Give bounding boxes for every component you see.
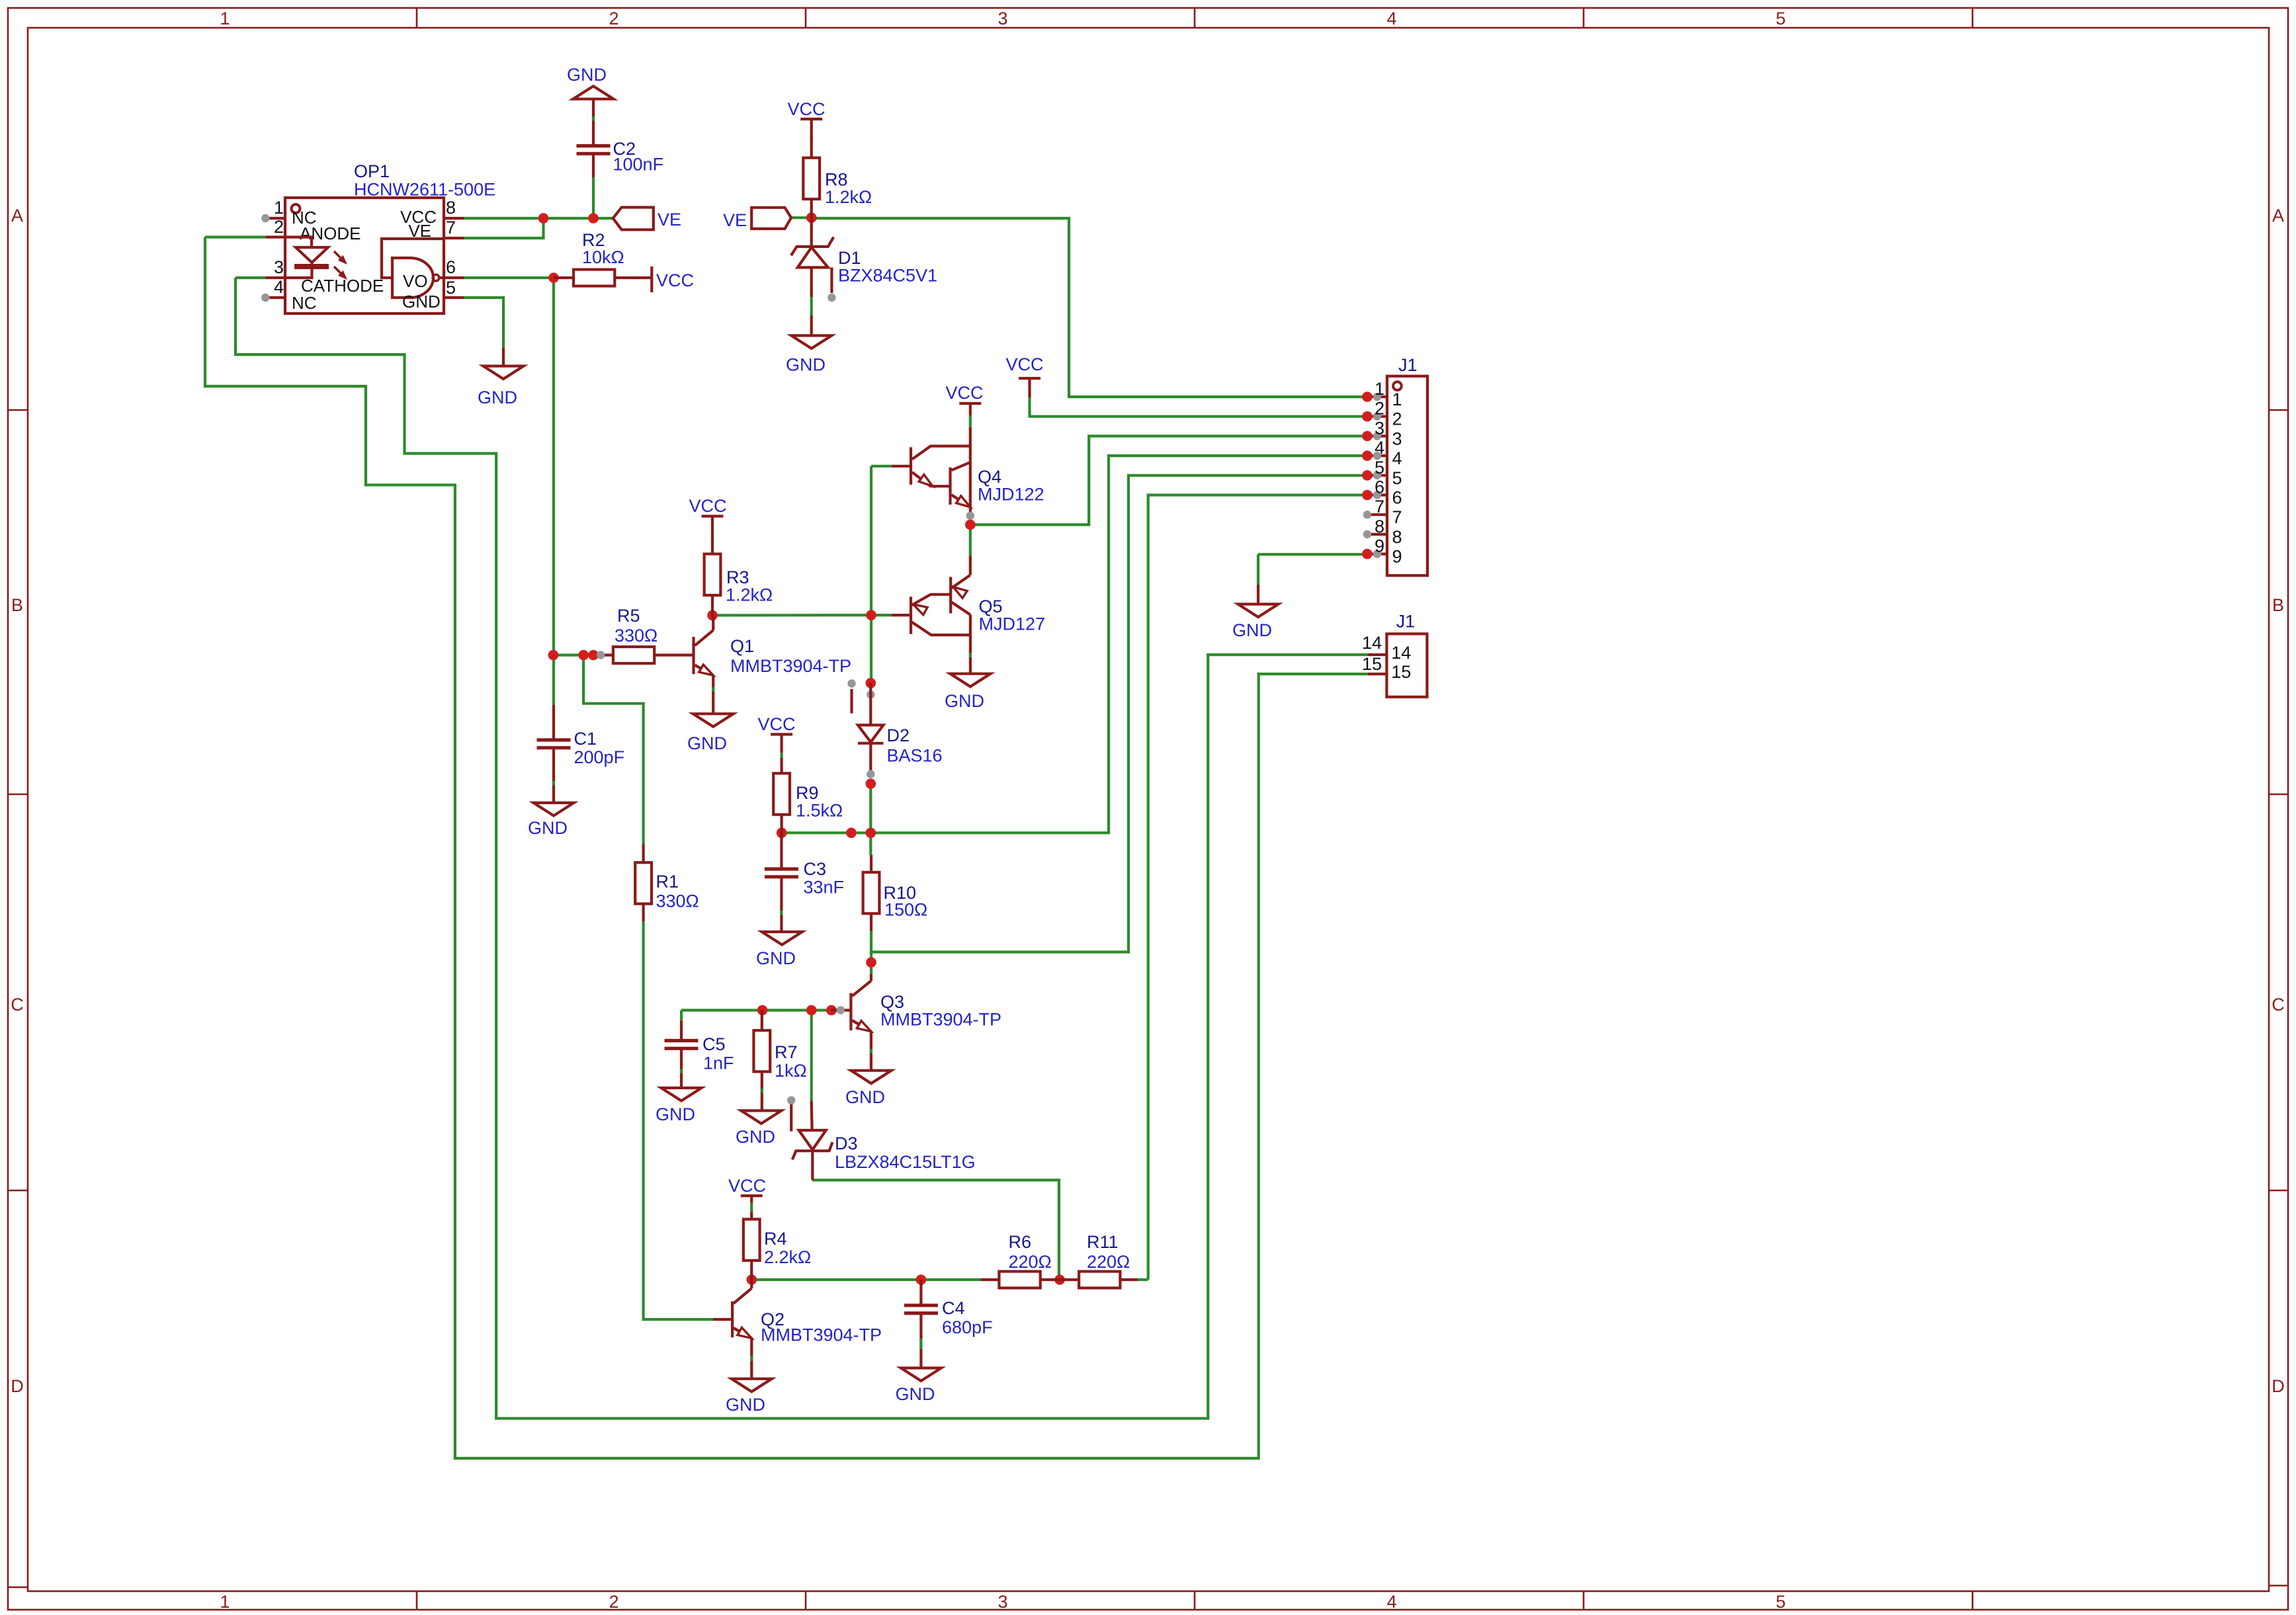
capacitor C2 100nF xyxy=(577,99,664,177)
wire Q3 base node down to D3 xyxy=(810,1011,813,1101)
svg-text:1.2kΩ: 1.2kΩ xyxy=(825,187,872,207)
ground GND under Q3 xyxy=(845,1071,892,1107)
OP1 LED light arrows xyxy=(334,251,347,279)
wire OP1 pin6 VO net xyxy=(464,276,554,279)
wire VE net to J1 pin1 xyxy=(812,218,1367,397)
svg-text:LBZX84C15LT1G: LBZX84C15LT1G xyxy=(835,1152,976,1172)
wire VCC stub Q4 xyxy=(969,416,972,427)
svg-text:2: 2 xyxy=(1375,399,1384,419)
svg-text:1.5kΩ: 1.5kΩ xyxy=(796,801,843,821)
J1 pin 15 xyxy=(1362,654,1411,682)
svg-text:10kΩ: 10kΩ xyxy=(582,247,624,267)
svg-text:BZX84C5V1: BZX84C5V1 xyxy=(838,266,937,286)
svg-text:R7: R7 xyxy=(775,1042,798,1062)
J1 pin 5 xyxy=(1362,458,1402,488)
resistor R10 150 xyxy=(863,855,928,931)
svg-text:R6: R6 xyxy=(1009,1232,1032,1252)
junction OP1 pin7 pin8 xyxy=(538,213,549,224)
svg-text:15: 15 xyxy=(1362,654,1382,674)
OP1 pin 6 VO xyxy=(444,257,464,278)
wire OP1 pin7 up to VE net xyxy=(464,218,544,238)
resistor R4 2.2k xyxy=(744,1212,811,1280)
svg-text:14: 14 xyxy=(1391,643,1411,663)
svg-text:GND: GND xyxy=(786,355,826,375)
OP1 pin 8 VCC xyxy=(400,198,464,227)
svg-text:VO: VO xyxy=(403,271,428,291)
capacitor C1 200pF xyxy=(537,705,625,803)
svg-text:C: C xyxy=(11,995,24,1015)
resistor R8 1.2k xyxy=(803,119,872,218)
transistor Q1 MMBT3904-TP xyxy=(694,615,852,714)
svg-text:2: 2 xyxy=(274,217,284,237)
svg-text:1nF: 1nF xyxy=(703,1054,734,1073)
ground GND under Q2 xyxy=(726,1379,772,1415)
svg-text:MMBT3904-TP: MMBT3904-TP xyxy=(761,1325,882,1345)
svg-text:15: 15 xyxy=(1391,662,1411,682)
ground GND under J1 pin9 xyxy=(1232,585,1279,640)
junction Q4 Q5 emitter node xyxy=(965,520,976,530)
svg-text:VCC: VCC xyxy=(945,383,983,403)
svg-text:1.2kΩ: 1.2kΩ xyxy=(726,585,773,605)
svg-text:5: 5 xyxy=(1392,468,1402,488)
svg-text:4: 4 xyxy=(1375,438,1384,458)
svg-text:R5: R5 xyxy=(617,606,640,626)
wire Q5 base stub xyxy=(871,614,892,616)
svg-text:6: 6 xyxy=(446,257,456,277)
OP1 pin 7 VE xyxy=(408,218,464,241)
svg-text:A: A xyxy=(2272,206,2284,226)
svg-text:1: 1 xyxy=(274,198,284,218)
D2 unconnected pin marker xyxy=(847,679,855,713)
svg-text:Q5: Q5 xyxy=(979,597,1003,616)
svg-text:GND: GND xyxy=(845,1087,885,1107)
svg-text:GND: GND xyxy=(567,65,607,85)
svg-text:GND: GND xyxy=(945,691,984,711)
svg-text:VCC: VCC xyxy=(689,496,726,516)
power VCC at J1 pin2 xyxy=(1005,354,1043,398)
svg-text:220Ω: 220Ω xyxy=(1087,1252,1130,1272)
power VCC at R2 xyxy=(652,267,694,292)
svg-text:5: 5 xyxy=(1775,9,1785,28)
wire D2 anode to R9 node xyxy=(869,784,872,833)
wire OP1 pin3 net xyxy=(235,276,265,279)
OP1 internal gate xyxy=(382,239,444,311)
svg-text:9: 9 xyxy=(1375,536,1384,556)
svg-text:1: 1 xyxy=(1392,390,1402,409)
svg-text:J1: J1 xyxy=(1398,355,1418,375)
wire J1 pin9 to GND xyxy=(1257,554,1259,585)
svg-text:220Ω: 220Ω xyxy=(1009,1252,1052,1272)
junction D2 anode node xyxy=(866,778,876,789)
svg-text:R1: R1 xyxy=(656,872,679,891)
svg-text:MJD127: MJD127 xyxy=(979,614,1046,634)
svg-text:HCNW2611-500E: HCNW2611-500E xyxy=(354,180,495,200)
OP1 pin 2 ANODE xyxy=(265,217,361,243)
J1 pin 1 xyxy=(1362,379,1402,409)
wire D3 to R6 R11 node xyxy=(812,1180,1059,1280)
svg-text:2: 2 xyxy=(609,1592,618,1612)
svg-text:J1: J1 xyxy=(1396,612,1416,632)
svg-text:VCC: VCC xyxy=(757,714,795,734)
svg-text:R11: R11 xyxy=(1087,1232,1119,1252)
svg-text:4: 4 xyxy=(1386,9,1396,28)
resistor R3 1.2k xyxy=(704,517,773,616)
svg-text:D1: D1 xyxy=(838,248,861,268)
svg-text:D: D xyxy=(11,1376,24,1396)
resistor R5 330 xyxy=(597,606,694,663)
ground GND under C4 xyxy=(896,1368,941,1405)
svg-text:ANODE: ANODE xyxy=(300,224,361,243)
resistor R2 10k xyxy=(554,230,652,286)
svg-text:D: D xyxy=(2272,1376,2285,1396)
svg-text:Q1: Q1 xyxy=(730,636,754,656)
J1 pin 4 xyxy=(1362,438,1402,468)
svg-text:C1: C1 xyxy=(574,729,597,749)
svg-text:C: C xyxy=(2272,995,2285,1015)
svg-text:2: 2 xyxy=(1392,409,1402,429)
junction VE net at R8 D1 xyxy=(806,212,817,223)
svg-text:1kΩ: 1kΩ xyxy=(775,1061,807,1081)
svg-text:8: 8 xyxy=(1392,527,1402,547)
svg-text:8: 8 xyxy=(446,198,456,218)
svg-text:100nF: 100nF xyxy=(613,155,664,175)
svg-text:A: A xyxy=(11,206,23,226)
junction VO net at R2 xyxy=(548,272,559,283)
svg-text:R8: R8 xyxy=(825,170,848,190)
svg-text:D2: D2 xyxy=(887,725,910,745)
wire R10 bottom to Q3 collector xyxy=(870,931,872,974)
wire node to R5 xyxy=(553,653,593,656)
OP1 pin 3 CATHODE xyxy=(265,257,384,296)
junction R7 top xyxy=(757,1005,768,1016)
transistor Q3 MMBT3904-TP xyxy=(831,974,1001,1071)
svg-text:GND: GND xyxy=(1232,620,1272,640)
resistor R6 220 xyxy=(980,1232,1060,1288)
wire VCC stub R8 xyxy=(810,136,813,140)
junction D2 cathode node xyxy=(866,678,876,688)
svg-text:GND: GND xyxy=(528,818,568,838)
wire node down to R1 xyxy=(583,655,644,845)
wire VCC stub R9 xyxy=(780,753,783,758)
svg-text:Q4: Q4 xyxy=(978,467,1001,487)
svg-text:6: 6 xyxy=(1392,488,1402,508)
svg-text:GND: GND xyxy=(656,1104,695,1124)
svg-text:7: 7 xyxy=(446,218,456,237)
wire VCC stub R3 xyxy=(711,535,714,539)
svg-text:200pF: 200pF xyxy=(574,747,625,767)
junction node at R5 xyxy=(588,650,599,661)
svg-text:4: 4 xyxy=(1392,448,1402,468)
junction R6 R11 D3 node xyxy=(1054,1274,1065,1285)
transistor Q2 MMBT3904-TP xyxy=(713,1280,882,1379)
wire VCC stub R4 xyxy=(750,1203,753,1212)
transistor Q5 MJD127 xyxy=(892,556,1045,674)
node VE flag right of OP1 xyxy=(613,208,681,230)
svg-text:B: B xyxy=(11,595,23,615)
svg-text:MMBT3904-TP: MMBT3904-TP xyxy=(880,1010,1001,1030)
power VCC above R9 xyxy=(757,714,795,753)
ground GND under OP1 pin5 xyxy=(478,347,524,407)
J1 pin 2 xyxy=(1362,399,1402,429)
svg-text:GND: GND xyxy=(478,388,517,407)
svg-text:R4: R4 xyxy=(764,1229,787,1249)
svg-text:VCC: VCC xyxy=(1005,354,1043,374)
wire Q4 emitter to Q5 emitter xyxy=(969,516,972,556)
wire D1 anode to GND xyxy=(810,297,813,315)
svg-text:6: 6 xyxy=(1375,477,1384,497)
ground GND under D1 xyxy=(786,315,831,375)
junction R9 bottom node xyxy=(777,828,787,839)
D3 unconnected pin marker xyxy=(787,1097,795,1132)
svg-text:150Ω: 150Ω xyxy=(884,900,927,920)
J1 pin 14 xyxy=(1362,633,1411,663)
junction D3 node xyxy=(806,1005,817,1016)
ground GND under R7 xyxy=(736,1110,781,1147)
svg-text:8: 8 xyxy=(1375,517,1384,536)
svg-text:330Ω: 330Ω xyxy=(656,891,699,911)
transistor Q4 MJD122 xyxy=(892,446,1044,520)
svg-text:VE: VE xyxy=(658,210,681,229)
wire OP1 pin5 to GND xyxy=(464,298,503,347)
svg-text:1: 1 xyxy=(220,1592,230,1612)
capacitor C3 33nF xyxy=(765,833,844,932)
J1 pin 7 xyxy=(1363,497,1402,527)
connector J1 pins 1-9 body xyxy=(1387,355,1427,575)
wire R1 to Q2 base xyxy=(644,921,713,1319)
svg-text:1: 1 xyxy=(220,9,230,28)
wire Q4 base to Q5 base vertical xyxy=(870,466,872,615)
OP1 internal LED xyxy=(285,237,329,278)
svg-text:4: 4 xyxy=(274,277,284,297)
power VCC above R8 xyxy=(787,99,825,119)
wire VO net down to C1 xyxy=(552,278,555,705)
svg-text:2: 2 xyxy=(609,9,618,28)
svg-text:D3: D3 xyxy=(835,1134,858,1153)
svg-text:R3: R3 xyxy=(726,567,749,587)
OP1 pin 4 NC xyxy=(261,277,316,313)
svg-text:VCC: VCC xyxy=(656,270,694,290)
wire OP1 pin8 to VE flag xyxy=(464,217,613,220)
capacitor C5 1nF xyxy=(665,1020,734,1088)
svg-text:33nF: 33nF xyxy=(804,878,845,897)
wire C5 R7 to Q3 base xyxy=(681,1009,831,1011)
svg-text:2.2kΩ: 2.2kΩ xyxy=(764,1247,811,1267)
svg-text:5: 5 xyxy=(446,278,456,298)
svg-text:5: 5 xyxy=(1775,1592,1785,1612)
ground GND under C3 xyxy=(756,932,802,968)
svg-text:7: 7 xyxy=(1375,497,1384,517)
ground GND under Q5 xyxy=(945,674,990,711)
svg-text:3: 3 xyxy=(274,257,284,277)
resistor R11 220 xyxy=(1060,1232,1138,1288)
svg-text:3: 3 xyxy=(998,9,1007,28)
wire R9 node to R10 xyxy=(869,833,872,854)
wire Q4 emitter node to J1 pin3 xyxy=(970,436,1367,524)
svg-text:VE: VE xyxy=(723,210,747,230)
svg-text:OP1: OP1 xyxy=(354,161,390,181)
power VCC above R3 xyxy=(689,496,726,517)
svg-text:GND: GND xyxy=(756,948,796,968)
svg-text:7: 7 xyxy=(1392,507,1402,527)
capacitor C4 680pF xyxy=(904,1280,993,1368)
wire R9 node to J1 pin4 xyxy=(782,456,1367,833)
ground GND above C2 xyxy=(567,65,614,99)
svg-text:14: 14 xyxy=(1362,633,1382,653)
J1 pin 6 xyxy=(1362,477,1402,508)
svg-text:C5: C5 xyxy=(702,1034,726,1054)
svg-text:VCC: VCC xyxy=(728,1176,766,1196)
wire OP1 pin2 net xyxy=(205,235,265,238)
wire net CATHODE to J1 pin14 stair xyxy=(235,278,1368,1419)
svg-text:C3: C3 xyxy=(804,859,827,879)
junction Q5 base node xyxy=(866,610,876,620)
node VE flag at R8 xyxy=(723,208,791,230)
junction VE net at C2 xyxy=(588,213,599,224)
diode D3 zener LBZX84C15LT1G xyxy=(792,1101,976,1180)
ground GND under C1 xyxy=(528,803,574,838)
J1 pin 8 xyxy=(1363,517,1402,547)
wire R11 node to J1 pin6 xyxy=(1148,495,1367,1280)
power VCC above Q4 xyxy=(945,383,983,446)
wire VCC to J1 pin2 xyxy=(1030,398,1367,417)
junction R10 Q3 collector node xyxy=(866,957,876,968)
svg-text:3: 3 xyxy=(998,1592,1007,1612)
wire C5 top stub xyxy=(680,1011,683,1021)
J1 pin 9 xyxy=(1362,536,1402,567)
junction C4 top node xyxy=(916,1274,927,1285)
svg-text:B: B xyxy=(2272,595,2284,615)
svg-text:GND: GND xyxy=(726,1395,765,1415)
junction R3 bottom xyxy=(707,610,718,621)
J1 pin 3 xyxy=(1362,418,1402,448)
diode D2 BAS16 xyxy=(858,683,943,778)
svg-text:C4: C4 xyxy=(942,1298,965,1318)
wire J1 pin9 net xyxy=(1258,553,1367,556)
svg-text:3: 3 xyxy=(1392,429,1402,448)
op-amp U1 optocoupler OP1 HCNW2611-500E body xyxy=(285,161,495,313)
junction D2 R10 node xyxy=(866,828,876,839)
diode D1 zener BZX84C5V1 xyxy=(791,218,937,297)
svg-text:Q3: Q3 xyxy=(880,992,904,1012)
svg-text:4: 4 xyxy=(1386,1592,1396,1612)
wire R11 right stub xyxy=(1138,1278,1148,1281)
ground GND under Q1 xyxy=(687,714,734,753)
junction R4 bottom node xyxy=(747,1274,757,1285)
resistor R7 1k xyxy=(753,1011,806,1111)
resistor R1 330 xyxy=(635,844,699,921)
svg-text:VCC: VCC xyxy=(787,99,825,119)
svg-text:MJD122: MJD122 xyxy=(978,485,1044,505)
svg-text:GND: GND xyxy=(896,1384,935,1404)
junction Q3 base xyxy=(826,1005,837,1016)
junction VO net at C1 xyxy=(548,650,559,661)
wire R4 node to R6 xyxy=(751,1278,980,1281)
svg-text:1: 1 xyxy=(1375,379,1384,399)
svg-text:R9: R9 xyxy=(796,783,819,803)
ground GND under C5 xyxy=(656,1088,702,1124)
wire Q4 base stub xyxy=(871,465,892,468)
svg-text:330Ω: 330Ω xyxy=(615,626,658,645)
wire R3 bottom to Q5 base xyxy=(712,614,871,617)
svg-text:GND: GND xyxy=(736,1127,775,1147)
OP1 pin 1 NC xyxy=(261,198,316,228)
svg-text:3: 3 xyxy=(1375,418,1384,438)
svg-text:GND: GND xyxy=(687,733,727,753)
wire R10 node to J1 pin5 xyxy=(871,476,1367,952)
svg-text:NC: NC xyxy=(292,293,317,313)
svg-text:9: 9 xyxy=(1392,547,1402,567)
power VCC above R4 xyxy=(728,1176,766,1203)
junction node to R1 xyxy=(578,650,589,661)
junction node at D2 wire xyxy=(846,828,857,839)
svg-text:MMBT3904-TP: MMBT3904-TP xyxy=(730,656,851,676)
svg-text:BAS16: BAS16 xyxy=(887,746,943,766)
wire VE flag to junction xyxy=(791,216,812,219)
wire Q5 base node down to D2 xyxy=(870,615,872,683)
svg-text:680pF: 680pF xyxy=(942,1317,993,1337)
D1 unconnected pin marker xyxy=(828,267,835,302)
svg-text:5: 5 xyxy=(1375,458,1384,477)
wire C2 bottom to VE net xyxy=(592,177,595,218)
connector J1 pins 14-15 body xyxy=(1386,612,1427,697)
resistor R9 1.5k xyxy=(773,758,843,833)
svg-text:GND: GND xyxy=(402,292,441,311)
OP1 pin 5 GND xyxy=(444,278,464,298)
wire VCC stub R2 xyxy=(632,276,636,279)
wire net ANODE to J1 pin15 stair xyxy=(205,237,1368,1459)
